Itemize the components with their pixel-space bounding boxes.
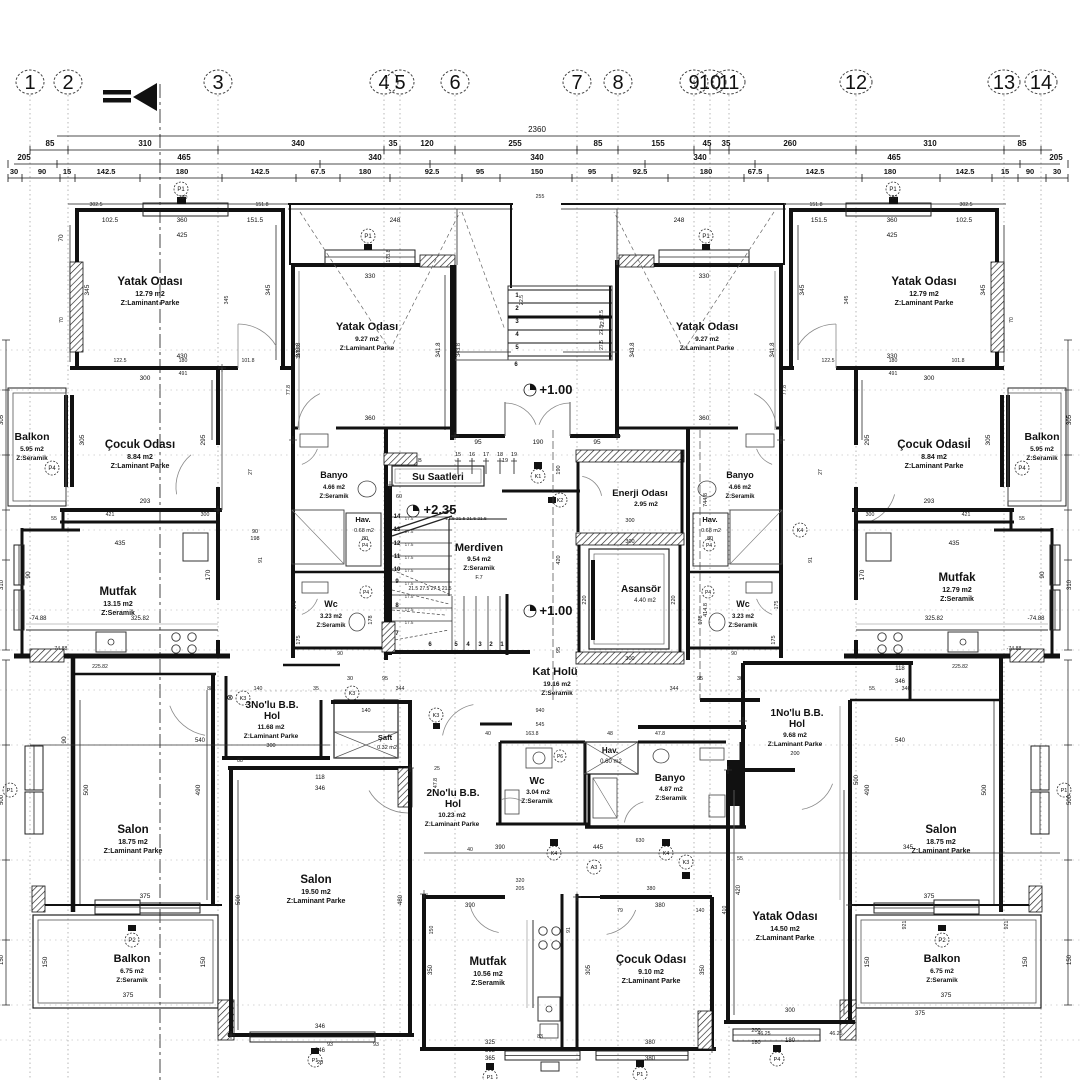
svg-text:17.5: 17.5 bbox=[405, 529, 414, 534]
child room left window wall bbox=[64, 395, 68, 487]
salon-balcony divider wall bbox=[43, 904, 222, 906]
horizontal grid line bbox=[0, 529, 1080, 531]
svg-text:360: 360 bbox=[887, 217, 898, 224]
svg-text:142.5: 142.5 bbox=[956, 167, 975, 176]
right outer wall upper bbox=[995, 210, 999, 368]
right salon balcony windows bbox=[934, 900, 979, 914]
svg-text:365: 365 bbox=[485, 1048, 496, 1054]
svg-text:340: 340 bbox=[368, 153, 382, 162]
svg-text:155: 155 bbox=[651, 139, 665, 148]
center-right bedroom top wall bbox=[619, 263, 783, 267]
svg-text:180: 180 bbox=[700, 167, 713, 176]
stair rail diagonal bbox=[392, 510, 452, 530]
axis bubble 9 bbox=[680, 70, 708, 94]
svg-text:14.50 m2: 14.50 m2 bbox=[770, 926, 800, 933]
saft box bbox=[334, 700, 398, 758]
elevator cab bbox=[589, 549, 669, 649]
svg-text:465: 465 bbox=[177, 153, 191, 162]
grid line 8 bbox=[617, 95, 619, 1080]
horizontal grid line bbox=[0, 349, 1080, 351]
banyo lower right wall block bbox=[727, 760, 741, 806]
axis bubble 11 bbox=[713, 70, 745, 94]
banyo lower left wall bbox=[588, 774, 591, 827]
horizontal grid line bbox=[0, 1004, 1080, 1006]
svg-text:170: 170 bbox=[205, 569, 212, 580]
svg-text:95: 95 bbox=[474, 439, 482, 446]
svg-text:150: 150 bbox=[200, 956, 207, 967]
svg-text:180: 180 bbox=[179, 358, 188, 364]
svg-text:P1: P1 bbox=[7, 788, 14, 794]
svg-text:40: 40 bbox=[467, 847, 473, 853]
svg-text:190: 190 bbox=[533, 439, 544, 446]
svg-text:19.16 m2: 19.16 m2 bbox=[543, 681, 571, 688]
svg-text:346: 346 bbox=[315, 1024, 326, 1030]
left salon outer windows bbox=[25, 746, 43, 790]
stair top interior line bbox=[449, 518, 507, 520]
lobby wall below entry bbox=[502, 490, 580, 493]
interior dim line corridor bbox=[699, 430, 701, 700]
horizontal grid line bbox=[0, 689, 1080, 691]
lower windows center bbox=[505, 1051, 580, 1060]
stair left flight treads bbox=[392, 516, 452, 518]
entry landing line bbox=[455, 359, 612, 361]
lower kitchen sink bbox=[538, 997, 560, 1021]
corridor wall above banyo lower bbox=[638, 725, 746, 729]
canopy dashed V right bbox=[684, 212, 774, 350]
kitchen right bottom wall bbox=[844, 654, 1060, 659]
lower child room bottom wall bbox=[577, 1047, 716, 1051]
axis bubble 14 bbox=[1025, 70, 1057, 94]
svg-text:198: 198 bbox=[250, 536, 259, 542]
stair fan dashed lines bbox=[392, 570, 449, 594]
svg-text:93: 93 bbox=[327, 1042, 333, 1048]
hatched column balcony right end bbox=[218, 1000, 234, 1040]
svg-text:293: 293 bbox=[140, 498, 151, 505]
svg-text:180: 180 bbox=[889, 195, 898, 201]
axis marker P2 right bbox=[935, 933, 949, 947]
svg-text:340: 340 bbox=[291, 139, 305, 148]
3Nolu hol bottom wall bbox=[222, 756, 330, 760]
svg-text:77.8: 77.8 bbox=[286, 385, 292, 395]
svg-text:305: 305 bbox=[0, 414, 5, 425]
axis marker P1 left salon bbox=[3, 783, 17, 797]
elevator shaft left wall bbox=[578, 545, 581, 660]
svg-text:16: 16 bbox=[469, 452, 475, 458]
svg-text:55: 55 bbox=[869, 686, 875, 692]
svg-text:310: 310 bbox=[0, 579, 5, 590]
svg-text:Wc: Wc bbox=[324, 599, 338, 609]
svg-text:95: 95 bbox=[382, 676, 388, 682]
svg-text:Z:Seramik: Z:Seramik bbox=[116, 977, 148, 984]
svg-text:122.5: 122.5 bbox=[114, 358, 127, 364]
svg-text:310: 310 bbox=[923, 139, 937, 148]
svg-text:178: 178 bbox=[698, 615, 704, 624]
right salon outer windows bbox=[1031, 746, 1049, 790]
svg-text:302.5: 302.5 bbox=[960, 202, 973, 208]
svg-text:9.27 m2: 9.27 m2 bbox=[355, 336, 379, 343]
svg-text:17.5: 17.5 bbox=[405, 607, 414, 612]
corridor bottom wall center bbox=[331, 700, 412, 704]
horizontal grid line bbox=[0, 939, 1080, 941]
svg-text:3.23 m2: 3.23 m2 bbox=[732, 614, 755, 620]
svg-text:95: 95 bbox=[593, 439, 601, 446]
enerji odasi right wall bbox=[681, 450, 684, 545]
svg-text:921: 921 bbox=[1004, 921, 1010, 930]
svg-text:-74.88: -74.88 bbox=[53, 646, 68, 652]
svg-text:350: 350 bbox=[428, 964, 434, 975]
svg-text:300: 300 bbox=[201, 512, 210, 518]
svg-text:95: 95 bbox=[556, 647, 562, 653]
svg-text:18.75 m2: 18.75 m2 bbox=[926, 839, 956, 846]
svg-text:744.8: 744.8 bbox=[703, 493, 709, 507]
bath block right wing left wall bbox=[686, 428, 690, 660]
wc right walls bbox=[688, 571, 781, 574]
svg-text:142.5: 142.5 bbox=[251, 167, 270, 176]
svg-text:360: 360 bbox=[699, 415, 710, 422]
kitchen corner connector bbox=[62, 510, 65, 530]
svg-text:15: 15 bbox=[455, 452, 461, 458]
right bedroom top parapet line bbox=[784, 203, 1006, 205]
svg-text:85: 85 bbox=[594, 139, 603, 148]
svg-text:101.8: 101.8 bbox=[242, 358, 255, 364]
hatched wall su saatleri bbox=[384, 453, 417, 465]
entry canopy top wall bbox=[288, 203, 513, 205]
svg-text:13.15 m2: 13.15 m2 bbox=[103, 601, 133, 608]
hatched column left wall bbox=[70, 262, 83, 352]
svg-text:360: 360 bbox=[177, 217, 188, 224]
axis bubble 12 bbox=[840, 70, 872, 94]
wc fixtures left bbox=[349, 613, 365, 631]
canopy dashed V left bbox=[300, 212, 390, 350]
svg-text:346: 346 bbox=[902, 686, 911, 692]
axis marker K4 right bath bbox=[793, 523, 807, 537]
svg-text:90: 90 bbox=[25, 571, 32, 579]
svg-text:17.5: 17.5 bbox=[405, 581, 414, 586]
svg-text:Z:Seramik: Z:Seramik bbox=[725, 494, 755, 500]
svg-text:102.5: 102.5 bbox=[102, 217, 119, 224]
entry double door bbox=[504, 402, 506, 436]
axis marker K3 b bbox=[345, 686, 359, 700]
center-left bedroom left wall bbox=[291, 265, 295, 440]
svg-text:225.82: 225.82 bbox=[952, 664, 968, 670]
svg-text:220: 220 bbox=[582, 595, 588, 604]
svg-text:4.66 m2: 4.66 m2 bbox=[729, 485, 752, 491]
svg-text:150: 150 bbox=[864, 956, 871, 967]
svg-text:3.23 m2: 3.23 m2 bbox=[320, 614, 343, 620]
svg-text:21.5 27.5 27.5 21.5: 21.5 27.5 27.5 21.5 bbox=[408, 586, 451, 592]
door arc top-right bedroom bbox=[798, 324, 836, 346]
svg-text:150: 150 bbox=[42, 956, 49, 967]
svg-text:P1: P1 bbox=[1061, 788, 1068, 794]
axis marker P4 balcony bbox=[45, 461, 59, 475]
svg-text:293: 293 bbox=[924, 498, 935, 505]
wc fixtures right bbox=[709, 613, 725, 631]
lower kitchen top wall bbox=[424, 895, 505, 899]
svg-text:19.50 m2: 19.50 m2 bbox=[301, 889, 331, 896]
kitchen right counter line bbox=[856, 629, 1048, 631]
svg-text:150: 150 bbox=[531, 167, 544, 176]
water meters ticks bbox=[457, 458, 459, 474]
svg-text:+1.00: +1.00 bbox=[540, 382, 573, 397]
stair inner wall vertical bbox=[448, 519, 450, 596]
svg-text:346: 346 bbox=[315, 1048, 326, 1054]
right lower balcony outline bbox=[856, 915, 1041, 1008]
window W1 top-left bedroom bbox=[143, 203, 228, 216]
svg-text:490: 490 bbox=[864, 784, 871, 795]
svg-text:490: 490 bbox=[195, 784, 202, 795]
svg-text:305: 305 bbox=[586, 964, 592, 975]
svg-text:14: 14 bbox=[1030, 72, 1052, 94]
small box bottom center bbox=[541, 1062, 559, 1071]
svg-text:P1: P1 bbox=[364, 234, 372, 240]
kitchen right fridge bbox=[866, 533, 891, 561]
svg-text:375: 375 bbox=[140, 893, 151, 900]
2Nolu hol left wall bbox=[408, 702, 412, 768]
svg-text:150: 150 bbox=[429, 926, 435, 935]
svg-text:350: 350 bbox=[700, 964, 706, 975]
grid line 1 bbox=[29, 95, 31, 1080]
svg-text:151.8: 151.8 bbox=[256, 202, 269, 208]
su saatleri box bbox=[392, 466, 484, 486]
svg-text:91: 91 bbox=[808, 557, 814, 563]
svg-text:Z:Laminant Parke: Z:Laminant Parke bbox=[895, 300, 954, 307]
canopy bottom edge left bbox=[457, 351, 511, 353]
svg-text:151.5: 151.5 bbox=[811, 217, 828, 224]
svg-text:190: 190 bbox=[556, 465, 562, 474]
svg-text:67.5: 67.5 bbox=[311, 167, 326, 176]
svg-text:305: 305 bbox=[1067, 414, 1073, 425]
axis marker P4 balcony right bbox=[1015, 461, 1029, 475]
kitchen right wall lower bbox=[216, 640, 220, 658]
right yatak left wall bbox=[726, 770, 730, 1022]
svg-text:180: 180 bbox=[359, 167, 372, 176]
entry hall right wall bbox=[615, 260, 619, 438]
left salon top wall bbox=[73, 673, 216, 676]
hatched column child lower corner bbox=[698, 1011, 712, 1049]
svg-text:P6: P6 bbox=[557, 754, 563, 760]
svg-text:P2: P2 bbox=[128, 938, 136, 944]
svg-text:360: 360 bbox=[365, 415, 376, 422]
svg-text:-74.88: -74.88 bbox=[29, 616, 47, 622]
svg-text:95: 95 bbox=[476, 167, 484, 176]
wc left walls bbox=[293, 571, 386, 574]
svg-text:142.5: 142.5 bbox=[806, 167, 825, 176]
left lower balcony outline bbox=[33, 915, 218, 1008]
svg-text:5: 5 bbox=[394, 72, 405, 94]
svg-text:Salon: Salon bbox=[117, 824, 148, 836]
kitchen left outer wall bbox=[21, 528, 24, 658]
door arc center-left bedroom bbox=[298, 394, 320, 428]
hatched column stair bottom-left bbox=[382, 622, 395, 652]
svg-text:425: 425 bbox=[887, 232, 898, 239]
svg-text:435: 435 bbox=[115, 540, 126, 547]
svg-text:P1: P1 bbox=[889, 187, 897, 193]
door arc corridor to salon left bbox=[170, 706, 205, 736]
wc lower bottom wall bbox=[496, 823, 589, 826]
svg-text:Z:Seramik: Z:Seramik bbox=[728, 623, 758, 629]
banyo fixtures left bbox=[300, 434, 328, 447]
svg-text:P4: P4 bbox=[363, 590, 369, 596]
salon2 bottom window bbox=[250, 1032, 375, 1042]
shower left bbox=[292, 510, 344, 564]
hav lower shaft bbox=[584, 742, 638, 774]
svg-text:35: 35 bbox=[722, 139, 731, 148]
entry canopy right edge bbox=[510, 204, 512, 288]
axis bubble 8 bbox=[604, 70, 632, 94]
svg-text:Z:Laminant Parke: Z:Laminant Parke bbox=[756, 935, 815, 942]
1Nolu hol top wall bbox=[743, 661, 913, 665]
svg-text:178: 178 bbox=[368, 615, 374, 624]
svg-text:K4: K4 bbox=[797, 528, 804, 534]
svg-text:346: 346 bbox=[895, 679, 906, 685]
lower child room top wall bbox=[600, 895, 712, 899]
center-left bedroom window bbox=[325, 250, 415, 264]
svg-text:Z:Laminant Parke: Z:Laminant Parke bbox=[287, 898, 346, 905]
canopy right stub wall bbox=[616, 209, 618, 265]
svg-text:480: 480 bbox=[398, 894, 404, 905]
center-right bedroom right wall bbox=[779, 265, 783, 440]
kitchen top wall bbox=[22, 529, 80, 532]
svg-text:6: 6 bbox=[449, 72, 460, 94]
svg-text:Z:Laminant Parke: Z:Laminant Parke bbox=[622, 978, 681, 985]
svg-text:310: 310 bbox=[138, 139, 152, 148]
svg-text:150: 150 bbox=[0, 954, 5, 965]
svg-text:46.25: 46.25 bbox=[830, 1031, 843, 1037]
svg-text:Yatak Odası: Yatak Odası bbox=[752, 911, 817, 923]
svg-text:380: 380 bbox=[645, 1040, 656, 1046]
svg-text:421: 421 bbox=[106, 512, 115, 518]
svg-text:340: 340 bbox=[693, 153, 707, 162]
svg-text:4.87 m2: 4.87 m2 bbox=[659, 786, 683, 793]
svg-text:35: 35 bbox=[389, 139, 398, 148]
kitchen left windows bbox=[14, 545, 24, 585]
svg-text:345: 345 bbox=[84, 284, 91, 295]
svg-text:630: 630 bbox=[636, 838, 645, 844]
svg-text:255: 255 bbox=[508, 139, 522, 148]
svg-text:2No'lu B.B.: 2No'lu B.B. bbox=[427, 788, 480, 799]
hav shaft right bbox=[693, 513, 728, 566]
hatched column kitchen right bottom bbox=[1010, 649, 1044, 662]
svg-text:11: 11 bbox=[394, 554, 401, 560]
svg-text:325: 325 bbox=[485, 1040, 496, 1046]
left salon right wall bbox=[211, 674, 215, 905]
svg-text:Enerji Odası: Enerji Odası bbox=[612, 488, 667, 499]
wc lower fixtures bbox=[526, 748, 552, 768]
svg-text:Asansör: Asansör bbox=[621, 584, 661, 595]
svg-text:421: 421 bbox=[962, 512, 971, 518]
svg-text:101.8: 101.8 bbox=[952, 358, 965, 364]
svg-text:2360: 2360 bbox=[528, 125, 546, 134]
hatched column balcony right-wing end bbox=[840, 1000, 856, 1040]
axis marker P1 bottom-left bbox=[308, 1053, 322, 1067]
right salon-balcony divider wall bbox=[852, 904, 1031, 906]
door arc corridor to salon2 bbox=[369, 791, 408, 814]
axis bubble 2 bbox=[54, 70, 82, 94]
svg-text:40: 40 bbox=[485, 731, 491, 737]
svg-text:300: 300 bbox=[625, 518, 634, 524]
grid line 7 bbox=[576, 95, 578, 1080]
salon right top wall bbox=[850, 699, 1001, 702]
horizontal grid line bbox=[0, 454, 1080, 456]
1Nolu hol corner wall bbox=[909, 663, 912, 700]
svg-text:Wc: Wc bbox=[530, 776, 545, 787]
svg-text:5.95 m2: 5.95 m2 bbox=[1030, 446, 1054, 453]
svg-text:345: 345 bbox=[980, 284, 987, 295]
svg-text:Z:Seramik: Z:Seramik bbox=[655, 795, 687, 802]
elevator top hatched wall bbox=[576, 533, 684, 545]
svg-text:6.75 m2: 6.75 m2 bbox=[120, 968, 144, 975]
svg-text:Z:Laminant Parke: Z:Laminant Parke bbox=[244, 733, 299, 740]
stair outer left wall bbox=[388, 486, 392, 655]
enerji odasi left wall bbox=[577, 462, 580, 532]
inner parallel line yatakR bbox=[839, 706, 841, 900]
svg-text:180: 180 bbox=[751, 1040, 760, 1046]
kitchen right left wall lower bbox=[854, 640, 858, 658]
svg-text:Çocuk Odası: Çocuk Odası bbox=[105, 439, 175, 451]
axis bubble 6 bbox=[441, 70, 469, 94]
axis marker P4 wc left bbox=[360, 586, 372, 598]
svg-text:414.8: 414.8 bbox=[703, 603, 709, 617]
svg-text:175: 175 bbox=[771, 635, 777, 644]
svg-text:Hol: Hol bbox=[264, 711, 280, 722]
svg-text:325.82: 325.82 bbox=[925, 616, 944, 622]
svg-text:Z:Seramik: Z:Seramik bbox=[521, 798, 553, 805]
hatched column kitchen bottom bbox=[30, 649, 64, 662]
inner parallel line center-left room bbox=[298, 271, 300, 430]
svg-text:Şaft: Şaft bbox=[378, 733, 393, 742]
1Nolu hol left wall bbox=[741, 663, 745, 827]
wc lower top wall bbox=[500, 741, 585, 744]
svg-text:12.79 m2: 12.79 m2 bbox=[909, 291, 939, 298]
door arc wc left bbox=[302, 599, 318, 615]
wc lower left wall bbox=[499, 742, 502, 824]
svg-text:3: 3 bbox=[212, 72, 223, 94]
svg-text:90: 90 bbox=[731, 651, 737, 657]
child room right bottom wall bbox=[852, 508, 1014, 512]
svg-text:140: 140 bbox=[361, 708, 370, 714]
svg-text:46.25: 46.25 bbox=[758, 1031, 771, 1037]
svg-text:17: 17 bbox=[483, 452, 489, 458]
svg-text:K1: K1 bbox=[535, 474, 542, 480]
3Nolu hol top wall bbox=[283, 664, 340, 667]
svg-text:380: 380 bbox=[645, 1056, 656, 1062]
right edge dimension line bbox=[1067, 340, 1069, 650]
section line bbox=[159, 84, 161, 1080]
door arc child room right bbox=[870, 494, 895, 521]
svg-text:17.5: 17.5 bbox=[405, 516, 414, 521]
svg-text:K3: K3 bbox=[240, 696, 247, 702]
svg-text:55: 55 bbox=[1019, 516, 1025, 522]
top-left bedroom right wall bbox=[281, 210, 285, 368]
center-left bedroom bottom wall bbox=[291, 427, 298, 430]
svg-text:45: 45 bbox=[703, 139, 712, 148]
svg-text:67.5: 67.5 bbox=[748, 167, 763, 176]
svg-text:300: 300 bbox=[785, 1008, 796, 1014]
svg-text:Z:Seramik: Z:Seramik bbox=[319, 494, 349, 500]
bath block left wall bbox=[291, 428, 295, 658]
tick crosses at junctions bbox=[218, 367, 226, 369]
svg-text:175: 175 bbox=[296, 635, 302, 644]
svg-text:90: 90 bbox=[337, 651, 343, 657]
svg-text:Çocuk Odası: Çocuk Odası bbox=[616, 954, 686, 966]
svg-text:0.68 m2: 0.68 m2 bbox=[701, 528, 721, 534]
svg-text:70: 70 bbox=[1009, 317, 1015, 323]
svg-text:180: 180 bbox=[179, 195, 188, 201]
enerji odasi top hatched wall bbox=[576, 450, 684, 462]
salon2 top wall bbox=[228, 766, 412, 770]
top-right bedroom bottom wall bbox=[781, 366, 794, 370]
hatched column salon2 top right bbox=[398, 768, 412, 807]
